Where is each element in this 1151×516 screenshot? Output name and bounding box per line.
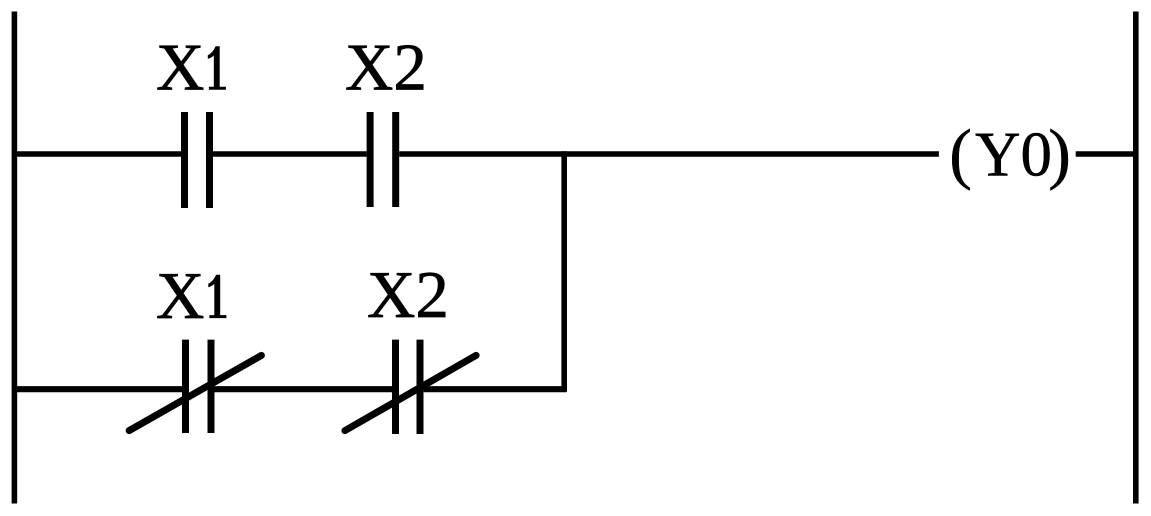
svg-text:X2: X2 — [345, 31, 427, 105]
svg-text:X2: X2 — [367, 258, 449, 332]
svg-text:): ) — [1048, 115, 1071, 191]
svg-text:Y0: Y0 — [975, 119, 1052, 189]
svg-text:X: X — [156, 259, 204, 333]
svg-text:(: ( — [949, 115, 972, 191]
svg-text:X: X — [156, 31, 204, 105]
